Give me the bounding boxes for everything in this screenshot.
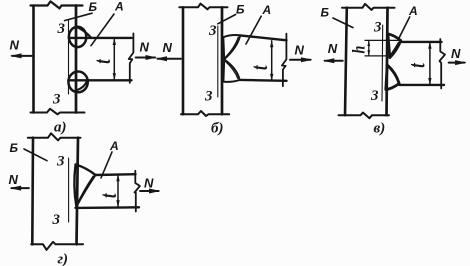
plate B top break line (fig g) xyxy=(28,133,81,140)
svg-text:N: N xyxy=(451,46,461,61)
dimension h bottom arrowhead (fig v) xyxy=(367,50,370,56)
svg-text:в): в) xyxy=(374,121,386,137)
svg-text:Б: Б xyxy=(89,0,98,14)
svg-text:г): г) xyxy=(58,252,69,266)
dimension t top arrowhead (fig g) xyxy=(116,175,119,182)
upper weld bead (fig b) xyxy=(223,35,240,59)
plate B bottom break line (fig g) xyxy=(31,242,83,250)
plate B left edge (fig v) xyxy=(345,8,347,116)
label B leader (fig g) xyxy=(24,149,47,161)
force arrow N right (fig g) xyxy=(140,189,160,194)
svg-text:3: 3 xyxy=(52,92,61,108)
svg-text:А: А xyxy=(109,139,119,153)
dimension t line (fig b) xyxy=(271,41,273,81)
plate A bottom surface line (fig g) xyxy=(76,206,140,209)
dimension t bottom arrowhead (fig g) xyxy=(116,200,119,207)
svg-text:t: t xyxy=(90,58,116,64)
label B leader (fig v) xyxy=(333,18,353,28)
plate A right end break line (fig a) xyxy=(129,33,134,83)
lower weld bead (fig v) xyxy=(386,65,399,90)
svg-text:N: N xyxy=(10,37,20,52)
lower weld bead (fig b) xyxy=(223,59,239,81)
weld axis thin line (fig b) xyxy=(217,26,219,97)
svg-text:Б: Б xyxy=(10,141,19,155)
force arrow N left (fig a) xyxy=(10,53,32,58)
dimension t bottom arrowhead (fig v) xyxy=(428,78,431,85)
force arrow N left (fig b) xyxy=(156,56,182,61)
plate A top surface line (fig b) xyxy=(240,35,286,40)
dimension h top arrowhead (fig v) xyxy=(367,41,370,47)
weld axis thin line (fig g) xyxy=(68,158,70,222)
dimension h lower extension line (fig v) xyxy=(365,55,387,57)
svg-text:А: А xyxy=(408,4,418,18)
svg-text:3: 3 xyxy=(204,89,213,105)
plate B bottom break line (fig v) xyxy=(339,113,390,119)
plate B bottom break line (fig a) xyxy=(31,109,85,115)
dimension t line (fig v) xyxy=(429,42,431,84)
dimension t line (fig a) xyxy=(113,39,115,80)
lower weld bead inner line (fig b) xyxy=(225,61,238,78)
weld bead top edge (fig g) xyxy=(76,165,96,176)
svg-text:А: А xyxy=(262,3,272,17)
plate A right end break line (fig v) xyxy=(440,39,446,89)
dimension t bottom arrowhead (fig a) xyxy=(113,73,116,80)
svg-text:3: 3 xyxy=(208,23,217,39)
dimension t top arrowhead (fig b) xyxy=(270,41,273,48)
svg-text:3: 3 xyxy=(373,20,382,36)
weld bevel inner line (fig g) xyxy=(77,176,93,204)
plate A right end break line (fig g) xyxy=(135,171,140,212)
dimension t line (fig g) xyxy=(117,175,119,207)
label A leader (fig a) xyxy=(91,14,114,46)
upper weld bead (fig v) xyxy=(388,34,401,58)
svg-text:3: 3 xyxy=(52,212,61,228)
svg-text:N: N xyxy=(328,41,338,56)
upper weld bead inner line (fig v) xyxy=(391,42,399,54)
svg-text:h: h xyxy=(349,46,369,54)
force arrow N left (fig v) xyxy=(323,58,343,63)
svg-text:t: t xyxy=(405,62,431,68)
plate B top break line (fig a) xyxy=(31,1,83,8)
label A leader (fig b) xyxy=(246,16,261,44)
plate B face line (fig g) xyxy=(77,138,79,245)
svg-text:Б: Б xyxy=(236,3,245,17)
plate A bottom surface line (fig b) xyxy=(240,79,287,82)
svg-text:N: N xyxy=(295,42,305,57)
svg-text:t: t xyxy=(96,192,122,198)
svg-text:N: N xyxy=(140,40,150,55)
weld bead outer arc (fig g) xyxy=(74,165,76,207)
plate A top surface line (fig a) xyxy=(69,37,132,39)
weld bevel line (fig g) xyxy=(76,175,95,207)
label B leader (fig b) xyxy=(218,15,236,24)
plate B left edge (fig a) xyxy=(32,6,35,113)
top weld circle (fig a) xyxy=(69,27,86,47)
svg-text:А: А xyxy=(114,0,124,13)
upper weld bead inner line (fig b) xyxy=(225,37,238,57)
svg-text:t: t xyxy=(247,64,273,70)
plate A top surface line (fig v) xyxy=(401,41,442,43)
plate B left edge (fig b) xyxy=(182,7,185,114)
svg-text:N: N xyxy=(144,175,154,190)
force arrow N right (fig v) xyxy=(449,60,467,65)
svg-text:а): а) xyxy=(54,120,67,136)
top weld fillet hypotenuse (fig a) xyxy=(76,27,91,38)
label A leader (fig g) xyxy=(101,152,112,178)
dimension t top arrowhead (fig a) xyxy=(113,38,116,45)
svg-text:3: 3 xyxy=(56,154,65,170)
plate A bottom surface line (fig v) xyxy=(399,84,444,86)
plate A bottom surface line (fig a) xyxy=(68,79,131,81)
plate A right end break line (fig b) xyxy=(282,34,287,86)
svg-text:N: N xyxy=(163,40,173,55)
weld axis thin line (fig a) xyxy=(68,20,70,94)
svg-text:б): б) xyxy=(211,121,223,137)
plate B face line (fig b) xyxy=(221,7,224,114)
dimension t top arrowhead (fig v) xyxy=(428,42,431,49)
plate B bottom break line (fig b) xyxy=(181,111,229,116)
svg-text:3: 3 xyxy=(57,21,66,37)
force arrow N right (fig b) xyxy=(290,57,313,62)
dimension h line (fig v) xyxy=(368,41,370,56)
lower weld bead inner line (fig v) xyxy=(389,68,398,82)
force arrow N right (fig a) xyxy=(136,55,157,60)
label A leader (fig v) xyxy=(398,17,410,40)
plate A top surface line (fig g) xyxy=(96,173,136,176)
plate B left edge (fig g) xyxy=(31,138,34,245)
svg-text:N: N xyxy=(9,172,19,187)
bottom weld circle (fig a) xyxy=(68,72,87,93)
dimension t bottom arrowhead (fig b) xyxy=(270,74,273,81)
weld axis thin line (fig v) xyxy=(381,25,384,101)
bottom weld fillet hypotenuse (fig a) xyxy=(77,81,88,91)
force arrow N left (fig g) xyxy=(10,186,29,191)
plate B face line (fig v) xyxy=(387,8,388,116)
plate B face line (fig a) xyxy=(75,6,78,113)
svg-text:Б: Б xyxy=(321,6,330,20)
dimension h upper extension line (fig v) xyxy=(365,39,401,41)
plate B top break line (fig b) xyxy=(179,4,227,10)
plate B top break line (fig v) xyxy=(342,4,395,10)
svg-text:3: 3 xyxy=(370,88,379,104)
label B leader (fig a) xyxy=(65,13,93,20)
